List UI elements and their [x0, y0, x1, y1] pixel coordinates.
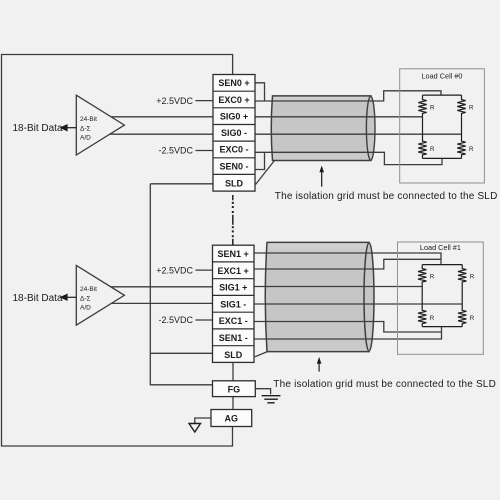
wire -2.5VDC to EXC1- [195, 319, 212, 321]
wire SEN1- over cable to bridge [254, 327, 442, 339]
svg-text:R: R [470, 315, 475, 322]
wire SIG1+ over cable to bridge left node [254, 286, 422, 288]
resistor R topleft 1 [418, 265, 426, 287]
wire SEN0+ jumper to EXC0+ [255, 83, 265, 101]
wire bridge1 bottom rail [422, 326, 462, 328]
bridge 0 [418, 95, 465, 158]
wire EXC0+ over cable to load cell [255, 91, 441, 101]
svg-text:EXC1 -: EXC1 - [219, 316, 248, 326]
resistor R bottomright 1 [458, 310, 466, 327]
svg-text:R: R [470, 274, 475, 281]
ground earth symbol [262, 396, 281, 403]
wire bridge0 left leg [422, 117, 424, 141]
wire EXC1- over cable step to bridge [254, 322, 442, 333]
svg-text:SLD: SLD [224, 350, 243, 360]
svg-text:18-Bit Data: 18-Bit Data [13, 123, 63, 134]
wire SIG1+ to A/D [111, 286, 213, 288]
load cell box 0 [400, 69, 485, 183]
svg-text:SEN0 -: SEN0 - [219, 161, 248, 171]
wire bridge1 top rail [422, 264, 462, 266]
op-amp U1 24-bit A/D [76, 265, 124, 325]
resistor R topright 1 [458, 265, 466, 287]
cable 1 shielded [265, 242, 374, 351]
svg-text:+2.5VDC: +2.5VDC [156, 96, 193, 106]
svg-text:SIG1 -: SIG1 - [220, 299, 246, 309]
terminal AG [211, 410, 252, 427]
terminal block 0 [213, 75, 255, 192]
wire SLD1 left to shield bus [150, 352, 212, 354]
svg-text:18-Bit Data: 18-Bit Data [13, 293, 63, 304]
svg-text:24-Bit: 24-Bit [80, 286, 97, 293]
wire SLD1 diagonal to cable shield [255, 351, 268, 356]
wire FG to AG [232, 397, 234, 410]
svg-text:EXC0 +: EXC0 + [218, 95, 249, 105]
wire SEN0- jumper to EXC0- [255, 152, 265, 169]
svg-text:Δ-Σ: Δ-Σ [80, 296, 91, 303]
wire bridge0 right leg [461, 117, 463, 141]
svg-text:R: R [430, 274, 435, 281]
svg-text:R: R [430, 315, 435, 322]
svg-text:SLD: SLD [225, 179, 244, 189]
wire -2.5VDC to EXC0- [195, 150, 213, 152]
wire EXC1+ over cable step to bridge [254, 259, 441, 269]
wire EXC0- over cable to load cell [255, 152, 442, 164]
cable 0 shielded [271, 96, 375, 161]
svg-text:R: R [469, 146, 474, 153]
wire SEN1+ over cable to bridge [254, 253, 441, 265]
svg-text:R: R [430, 146, 435, 153]
wire SIG0+ to A/D [112, 116, 214, 118]
resistor R topleft [418, 95, 426, 117]
wire SIG1- to A/D [111, 302, 213, 304]
ground analog symbol [189, 424, 201, 433]
wire bridge1 left leg [421, 287, 423, 310]
wire SLD0 diagonal to cable shield [256, 161, 275, 185]
bridge 1 [418, 265, 466, 327]
svg-text:-2.5VDC: -2.5VDC [158, 315, 193, 325]
svg-text:Δ-Σ: Δ-Σ [80, 125, 91, 132]
wire +2.5VDC to EXC1+ [195, 269, 212, 271]
wire SIG1- over cable to bridge right node [254, 303, 462, 305]
resistor R bottomleft 1 [418, 310, 426, 327]
svg-text:AG: AG [225, 414, 239, 424]
svg-text:A/D: A/D [80, 135, 91, 142]
arrow isolation 0 [319, 166, 324, 187]
svg-text:The isolation grid must be con: The isolation grid must be connected to … [273, 379, 496, 390]
wire A/D 0 output arrow [61, 125, 76, 131]
svg-text:-2.5VDC: -2.5VDC [158, 146, 193, 156]
wire bridge0 bottom rail [423, 157, 462, 159]
svg-text:The isolation grid must be con: The isolation grid must be connected to … [275, 191, 498, 202]
svg-text:EXC1 +: EXC1 + [218, 266, 249, 276]
load cell box 1 [398, 242, 484, 354]
wire FG to earth ground [255, 389, 270, 395]
svg-text:SIG1 +: SIG1 + [219, 283, 247, 293]
wire shield bus vertical to FG [150, 184, 213, 385]
resistor R bottomright [457, 141, 465, 159]
op-amp U0 24-bit A/D [76, 95, 124, 155]
wire bridge0 top rail [423, 94, 462, 96]
wire SIG0- over cable to bridge right node [255, 133, 462, 135]
svg-text:24-Bit: 24-Bit [80, 116, 97, 123]
svg-text:R: R [430, 105, 435, 112]
wire SLD1 to FG [232, 362, 234, 380]
svg-text:+2.5VDC: +2.5VDC [156, 265, 193, 275]
svg-text:R: R [469, 105, 474, 112]
svg-text:SIG0 -: SIG0 - [221, 128, 247, 138]
wire SIG0+ over cable to bridge left node [255, 116, 423, 118]
svg-text:SEN0 +: SEN0 + [218, 78, 249, 88]
svg-text:FG: FG [228, 384, 241, 394]
svg-text:A/D: A/D [80, 305, 91, 312]
terminal block 1 [213, 245, 255, 362]
svg-text:SEN1 +: SEN1 + [218, 249, 249, 259]
wire SIG0- to A/D [110, 133, 213, 135]
terminal FG [213, 381, 256, 397]
wire outer loop left/top/bottom [2, 55, 233, 447]
wire bridge1 right leg [461, 287, 463, 310]
svg-text:Load Cell #1: Load Cell #1 [420, 243, 461, 252]
resistor R topright [457, 95, 465, 117]
resistor R bottomleft [418, 141, 426, 159]
wire SLD0 left to shield bus [150, 183, 213, 185]
wire A/D 1 output arrow [61, 295, 76, 301]
svg-text:SEN1 -: SEN1 - [219, 333, 248, 343]
svg-text:EXC0 -: EXC0 - [219, 145, 248, 155]
wire +2.5VDC to EXC0+ [195, 100, 213, 102]
wire dotted continuation [232, 195, 234, 245]
svg-text:Load Cell #0: Load Cell #0 [422, 72, 463, 81]
svg-text:SIG0 +: SIG0 + [220, 111, 248, 121]
wire AG to analog ground [195, 418, 211, 424]
arrow isolation 1 [317, 357, 322, 372]
